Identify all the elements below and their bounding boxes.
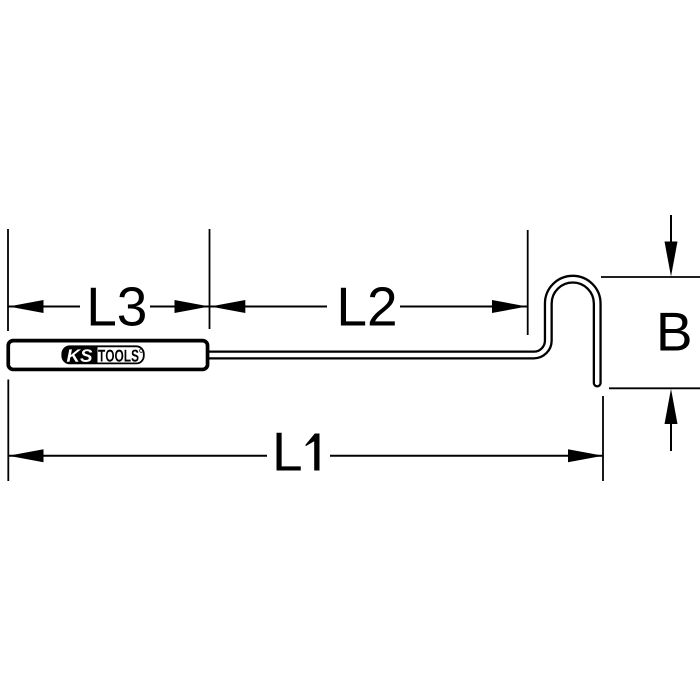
extension line L1 left bbox=[7, 380, 9, 482]
dimension B bottom leader line bbox=[670, 424, 672, 451]
KS TOOLS logo bbox=[62, 346, 144, 363]
arrow L1 left bbox=[9, 449, 44, 462]
rod (shaft + hook) white core bbox=[207, 279, 597, 383]
extension line handle end (L3/L2 boundary) bbox=[209, 229, 211, 329]
extension line B top bbox=[601, 276, 700, 278]
extension line L1 right bbox=[602, 396, 604, 481]
logo KS text bbox=[67, 349, 93, 362]
dimension line L2 right segment bbox=[400, 306, 527, 308]
rod (shaft + hook) black outline bbox=[207, 279, 597, 383]
dimension line L1 right segment bbox=[330, 455, 603, 457]
logo left black field bbox=[62, 346, 97, 363]
dimension B top leader line bbox=[670, 215, 672, 242]
logo badge background bbox=[62, 346, 144, 363]
logo registered mark bbox=[140, 349, 143, 352]
dimension line L2 left segment bbox=[210, 306, 327, 308]
svg-text:L2: L2 bbox=[336, 276, 397, 338]
extension line bend start (L2 right) bbox=[527, 230, 529, 335]
dimension line L3 left segment bbox=[9, 306, 81, 308]
logo TOOLS text bbox=[98, 350, 138, 362]
label L1 bbox=[272, 421, 320, 483]
arrow B top (pointing down) bbox=[665, 242, 678, 277]
dimension line L1 left segment bbox=[9, 455, 268, 457]
dimension line L3 right segment bbox=[150, 306, 210, 308]
extension line B bottom bbox=[609, 387, 700, 389]
logo badge outline bbox=[62, 346, 144, 363]
arrow L3 right bbox=[175, 300, 210, 313]
arrow L3 left bbox=[9, 300, 44, 313]
svg-text:L: L bbox=[272, 421, 303, 483]
arrow L1 right bbox=[568, 449, 603, 462]
extension line left (L3 top) bbox=[7, 229, 9, 331]
svg-text:L3: L3 bbox=[86, 276, 147, 338]
arrow L2 right bbox=[492, 300, 527, 313]
svg-text:B: B bbox=[656, 301, 693, 363]
arrow B bottom (pointing up) bbox=[665, 389, 678, 424]
arrow L2 left bbox=[210, 300, 245, 313]
handle body bbox=[8, 341, 207, 370]
